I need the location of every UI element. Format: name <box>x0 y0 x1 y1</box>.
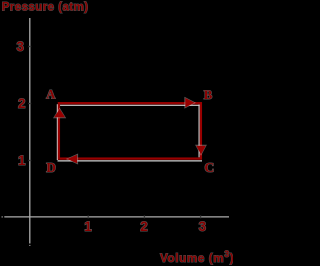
svg-text:3: 3 <box>16 39 23 54</box>
svg-text:Pressure (atm): Pressure (atm) <box>2 2 89 14</box>
svg-text:3: 3 <box>199 219 206 234</box>
svg-text:C: C <box>204 160 214 175</box>
svg-text:2: 2 <box>18 96 25 111</box>
svg-text:D: D <box>46 160 56 175</box>
svg-text:Volume (m3): Volume (m3) <box>160 249 233 265</box>
svg-text:1: 1 <box>18 153 26 168</box>
svg-text:B: B <box>204 88 213 102</box>
svg-text:1: 1 <box>84 219 92 234</box>
svg-text:2: 2 <box>140 219 147 234</box>
svg-text:A: A <box>46 87 56 101</box>
